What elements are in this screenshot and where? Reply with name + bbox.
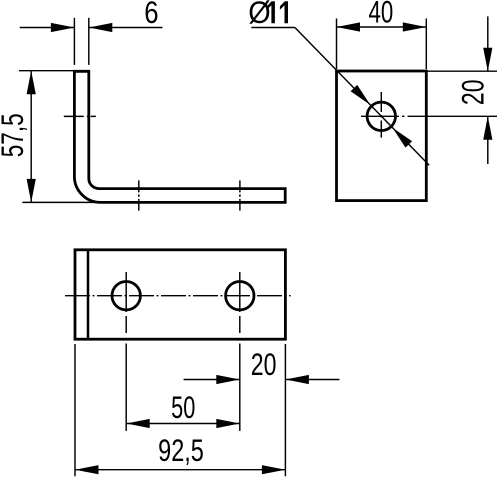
svg-text:20: 20: [251, 347, 277, 382]
dim 6: right arrowhead: [89, 23, 113, 32]
dim 50: right arrowhead: [216, 419, 240, 428]
dim 20 (top view): left dimension line tail: [184, 379, 240, 381]
leader &#216;11: lower arrowhead at hole: [392, 128, 412, 148]
dim 50 / dim 20: extension line (hole center): [239, 344, 241, 431]
dim 92,5: left extension line: [74, 344, 76, 476]
top view: bend line of upturned flange: [87, 250, 90, 339]
top view: left hole vertical centerline: [125, 272, 127, 336]
dim 92,5: right arrowhead: [262, 465, 286, 474]
dim 6: right dimension line tail: [89, 27, 163, 29]
dim 6: left arrowhead: [51, 23, 75, 32]
dim 40: right extension line: [425, 19, 427, 70]
leader &#216;11: upper arrowhead at hole: [351, 85, 371, 105]
dim 20 (end view): upper dimension line tail: [487, 16, 489, 71]
end view: hole circle: [367, 102, 395, 130]
hole diameter label: digit 1 (a): [267, 1, 275, 23]
end view: vertical hole centerline: [380, 92, 382, 138]
dim 40: dimension line: [337, 26, 427, 28]
dim 20 (end view): upper arrowhead: [483, 48, 492, 71]
dim 57,5: bottom arrowhead: [27, 179, 36, 203]
dim 57,5: dimension line: [30, 71, 32, 203]
leader &#216;11: underline: [251, 27, 295, 29]
end view: flange face rectangle: [337, 71, 427, 201]
dim 57,5: top arrowhead: [27, 71, 36, 95]
top view: left hole circle: [112, 282, 140, 310]
dim 6: left extension line: [73, 18, 75, 65]
dim 57,5: bottom extension line: [22, 201, 105, 203]
dim 20 (top view): right arrowhead: [285, 375, 309, 384]
side view: right hole centerline tick: [239, 180, 241, 210]
side view: hole axis centerline (upright flange): [64, 115, 96, 117]
dim 92,5: dimension line: [75, 469, 285, 471]
side view: L-bracket profile outline: [74, 71, 285, 202]
dim 50: left arrowhead: [126, 419, 150, 428]
dim 20 (top view): right dimension line tail: [285, 379, 339, 381]
hole diameter label: digit 1 (b): [280, 1, 288, 23]
side view: left hole centerline tick: [138, 180, 140, 210]
dim 92,5 / dim 20: right extension line: [284, 344, 286, 476]
dim 20 (end view): lower dimension line tail: [487, 116, 489, 164]
dim 6: left dimension line tail: [20, 27, 75, 29]
dim 20 (end view): lower arrowhead: [483, 116, 492, 140]
top view: bracket base rectangle: [75, 250, 285, 339]
top view: right hole circle: [226, 282, 254, 310]
leader &#216;11: leader line: [295, 28, 429, 166]
dim 50: left extension line (hole center): [125, 344, 127, 431]
svg-text:Ø: Ø: [248, 0, 270, 30]
svg-text:6: 6: [144, 0, 158, 31]
svg-text:92,5: 92,5: [158, 433, 204, 468]
dim 20 (top view): left arrowhead: [216, 375, 240, 384]
dim 50: dimension line: [126, 423, 240, 425]
dim 40: left extension line: [336, 19, 338, 70]
dim 40: right arrowhead: [403, 22, 427, 31]
svg-text:57,5: 57,5: [0, 113, 30, 157]
dim 20 (end view): top extension line: [426, 70, 497, 72]
top view: right hole vertical centerline: [239, 272, 241, 336]
dim 92,5: left arrowhead: [75, 465, 99, 474]
top view: horizontal centerline through holes: [65, 295, 291, 297]
svg-text:20: 20: [455, 79, 490, 105]
dim 57,5: top extension line: [19, 70, 74, 72]
svg-text:50: 50: [171, 390, 195, 425]
svg-text:40: 40: [369, 0, 394, 30]
dim 40: left arrowhead: [337, 22, 361, 31]
end view: horizontal hole centerline / dim 20 extension: [361, 115, 497, 117]
dim 6: right extension line: [88, 18, 90, 65]
